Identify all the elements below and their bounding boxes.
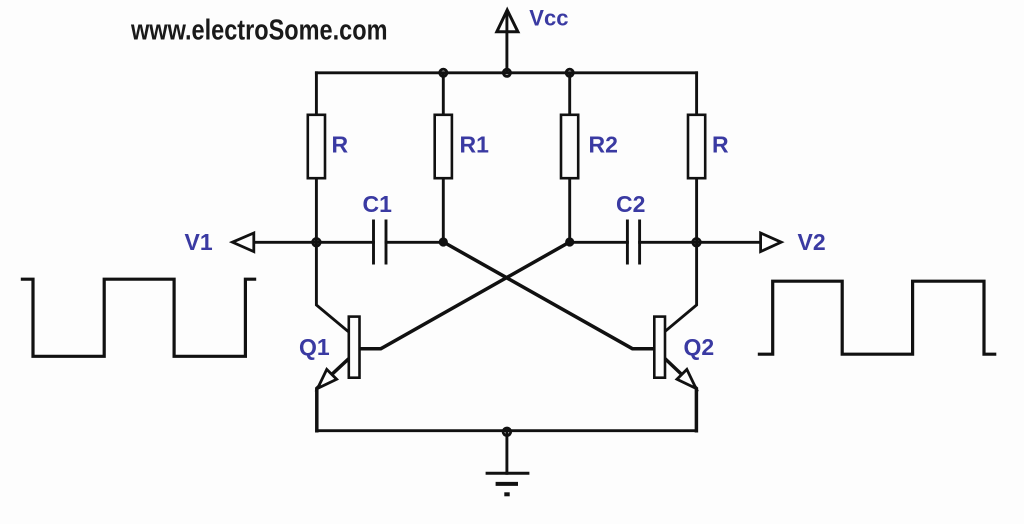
svg-text:R1: R1: [460, 132, 490, 158]
svg-text:R: R: [712, 132, 729, 158]
svg-text:Q2: Q2: [684, 334, 715, 360]
svg-text:Vcc: Vcc: [529, 5, 568, 30]
svg-text:V2: V2: [798, 229, 826, 255]
svg-text:R: R: [332, 132, 349, 158]
svg-text:www.electroSome.com: www.electroSome.com: [130, 15, 387, 47]
svg-text:V1: V1: [185, 229, 213, 255]
svg-text:R2: R2: [589, 132, 618, 158]
svg-text:Q1: Q1: [299, 334, 330, 360]
svg-text:C1: C1: [363, 191, 393, 217]
svg-text:C2: C2: [616, 191, 645, 217]
